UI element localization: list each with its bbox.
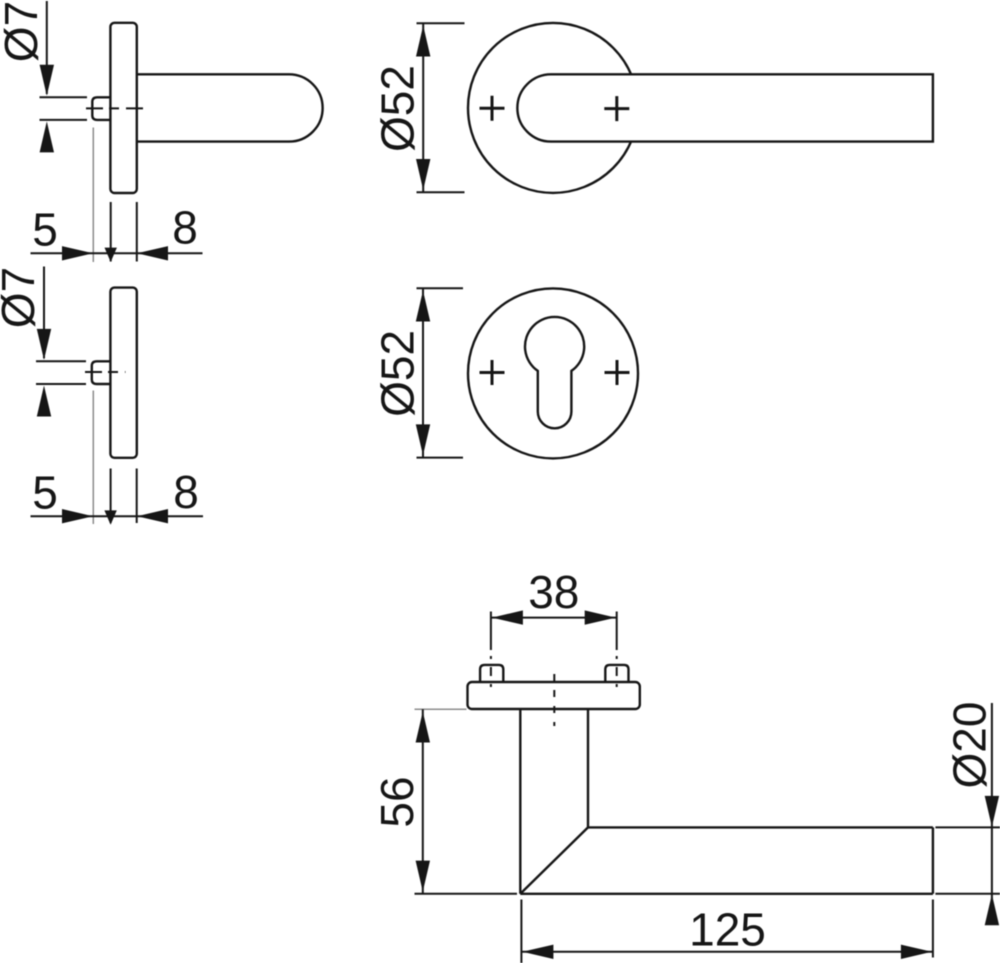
svg-text:125: 125: [689, 904, 766, 956]
dimension Ø52 (top): lower arrow: [416, 159, 430, 190]
svg-text:5: 5: [32, 204, 58, 256]
dimension Ø52 (top): dimension line: [422, 23, 424, 192]
dimension Ø20: lower extension line: [935, 893, 1000, 895]
dimension Ø52 (middle): lower extension tick: [417, 457, 464, 459]
middle side view: cylinder neck: [92, 361, 111, 384]
bottom view: lever bottom edge: [520, 893, 933, 895]
middle front view: right fixing cross: [605, 360, 630, 385]
dimension 5/8 (middle): dimension line: [31, 515, 204, 517]
dimension 5 (top): arrow: [62, 246, 93, 260]
dimension Ø52 (middle): upper extension tick: [417, 287, 464, 289]
svg-text:Ø52: Ø52: [372, 330, 424, 417]
dimension 5/8 (top): rose front extension line: [110, 202, 112, 262]
dimension Ø7 (top): lower arrow: [40, 121, 54, 152]
top side view: spindle neck: [92, 97, 110, 120]
dimension 56: upper arrow: [416, 712, 430, 743]
svg-text:56: 56: [371, 776, 423, 827]
dimension Ø7 (top): upper arrow: [40, 65, 54, 96]
dimension 8 (middle): arrow: [137, 509, 168, 523]
dimension 38: left arrow: [492, 610, 523, 624]
bottom view: left screw axis line: [490, 612, 492, 651]
dimension 5/8 (middle): neck extension line (thin): [92, 391, 94, 525]
dimension 5/8 (top): dimension line: [31, 252, 203, 254]
dimension 5/8 (top): rose back extension line: [136, 202, 138, 262]
dimension 38: dimension line: [491, 617, 617, 619]
dimension Ø7 (middle): upper extension line: [36, 360, 86, 362]
dimension 5/8 (middle): rose front extension line: [110, 469, 112, 524]
dimension Ø7 (top): dimension line: [46, 1, 48, 94]
middle side view: center line: [85, 371, 126, 373]
bottom view: grip right edge: [587, 710, 589, 828]
svg-text:Ø7: Ø7: [0, 267, 44, 328]
svg-text:8: 8: [172, 202, 198, 254]
top front view: left fixing cross: [480, 96, 505, 121]
top side view: rose plate: [110, 23, 136, 193]
dimension 125: dimension line: [521, 951, 933, 953]
middle front view: left fixing cross: [480, 360, 505, 385]
dimension 56: upper extension line: [415, 708, 467, 710]
bottom view: grip left edge: [519, 710, 521, 894]
dimension 125: right arrow: [901, 945, 932, 959]
svg-text:8: 8: [173, 466, 199, 518]
svg-text:Ø52: Ø52: [372, 65, 424, 152]
middle side view: escutcheon plate: [110, 288, 136, 458]
dimension 56: lower extension line: [415, 893, 518, 895]
middle front view: euro profile cylinder hole: [525, 317, 584, 428]
dimension Ø52 (top): lower extension tick: [417, 191, 465, 193]
bottom view: left screw head: [480, 665, 503, 682]
dimension Ø52 (middle): upper arrow: [416, 291, 430, 322]
dimension Ø52 (top): upper arrow: [416, 26, 430, 57]
dimension 56: dimension line: [422, 709, 424, 894]
bottom view: right screw head: [605, 665, 628, 682]
dimension Ø7 (top): lower extension line: [40, 119, 88, 121]
dimension Ø20: lower arrow: [985, 894, 999, 925]
top front view: right fixing cross: [604, 96, 629, 121]
dimension 5/8 (top): middle marker arrow: [105, 248, 117, 262]
dimension Ø20: upper arrow: [985, 796, 999, 827]
svg-text:Ø7: Ø7: [0, 1, 47, 62]
dimension 8 (top): arrow: [137, 246, 168, 260]
dimension Ø7 (middle): lower extension line: [36, 383, 86, 385]
dimension 56: lower arrow: [416, 861, 430, 892]
dimension Ø52 (middle): lower arrow: [416, 424, 430, 455]
top front view: lever handle: [517, 74, 933, 141]
svg-text:5: 5: [32, 467, 58, 519]
dimension Ø7 (top): upper extension line: [40, 96, 88, 98]
svg-text:38: 38: [528, 566, 579, 618]
middle front view: round escutcheon Ø52: [468, 288, 638, 458]
dimension Ø52 (middle): dimension line: [422, 288, 424, 457]
bottom view: lever top edge: [588, 826, 933, 828]
bottom view: right screw axis line: [616, 612, 618, 651]
dimension 5/8 (middle): rose back extension line: [136, 469, 138, 524]
dimension Ø20: upper extension line: [935, 826, 1000, 828]
dimension Ø7 (middle): lower arrow: [37, 386, 51, 417]
bottom view: miter joint diagonal: [520, 827, 588, 893]
top front view: round rose Ø52: [468, 23, 638, 193]
top side view: lever handle grip: [138, 74, 323, 141]
dimension 125: left extension line: [520, 900, 522, 963]
dimension 38: right arrow: [585, 610, 616, 624]
dimension 5 (middle): arrow: [62, 509, 93, 523]
dimension Ø7 (middle): upper arrow: [37, 329, 51, 360]
bottom view: plate center line: [553, 674, 555, 726]
bottom view: lever end edge: [932, 827, 934, 893]
svg-text:Ø20: Ø20: [944, 702, 996, 789]
top side view: center line: [86, 107, 146, 109]
dimension 125: right extension line: [932, 900, 934, 958]
dimension Ø52 (top): upper extension tick: [417, 22, 465, 24]
dimension 5/8 (top): neck extension line (thin): [92, 128, 94, 263]
dimension 5/8 (middle): middle marker arrow: [104, 510, 116, 524]
dimension 125: left arrow: [522, 945, 553, 959]
dimension Ø7 (middle): dimension line: [43, 267, 45, 359]
dimension Ø20: dimension line: [991, 703, 993, 925]
bottom view: mounting plate: [468, 682, 640, 709]
